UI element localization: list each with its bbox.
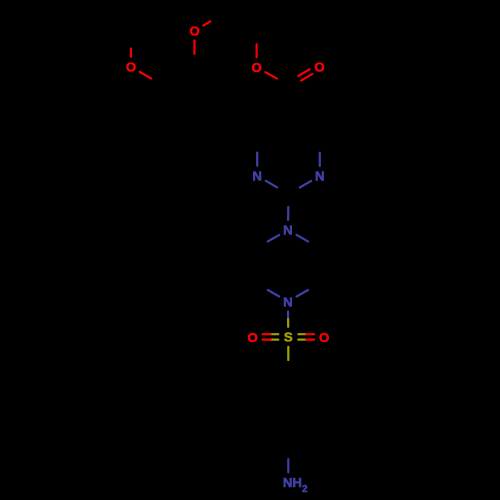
bond piperazine N-C2(pyrimidine) xyxy=(287,207,289,220)
bond pyrimidine N1-C6 xyxy=(256,153,258,166)
svg-text:O: O xyxy=(314,59,324,74)
bond piperazine N4-S xyxy=(287,312,289,320)
svg-text:N: N xyxy=(283,294,293,309)
bond pyrimidine N3-C4 xyxy=(319,153,321,166)
bond pyrimidine N3-C2 xyxy=(300,181,311,188)
bond piperazine N1-CH2 xyxy=(297,235,308,242)
svg-text:O: O xyxy=(319,330,329,345)
bond pyrimidine N1-C2 xyxy=(266,181,277,188)
bond piperazine N1-CH2 xyxy=(268,235,279,242)
bond O(methoxy-1)-aryl C xyxy=(193,41,195,54)
double bond C=O carbonyl xyxy=(301,74,312,81)
bond piperazine N4-CH2 xyxy=(268,290,279,297)
double bond S=O right xyxy=(298,333,306,335)
bond O(methoxy-2)-aryl C xyxy=(140,72,152,79)
svg-text:O: O xyxy=(189,23,199,38)
svg-text:O: O xyxy=(251,60,261,75)
bond H2N-aryl C xyxy=(287,459,289,472)
svg-text:N: N xyxy=(252,169,262,184)
svg-text:O: O xyxy=(126,60,136,75)
svg-text:S: S xyxy=(284,330,293,345)
bond ester O-CH2 xyxy=(256,44,258,57)
svg-text:N: N xyxy=(315,169,325,184)
bond ester O-C(=O) xyxy=(265,72,277,78)
svg-text:O: O xyxy=(247,330,257,345)
double bond S=O left xyxy=(271,339,279,341)
bond O(methoxy-1)-CH3 xyxy=(203,21,210,25)
bond S-aryl C xyxy=(287,347,289,360)
bond O(methoxy-2)-CH3 xyxy=(130,49,132,57)
svg-text:N: N xyxy=(283,223,293,238)
bond piperazine N4-CH2 xyxy=(297,290,308,297)
